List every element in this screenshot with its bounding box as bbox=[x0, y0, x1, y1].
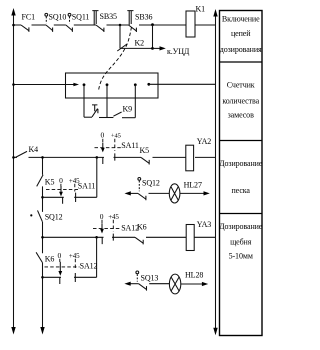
svg-text:SA11: SA11 bbox=[121, 141, 139, 150]
riser wire SA11 bbox=[96, 157, 98, 197]
wire counter bottom middle bbox=[99, 117, 113, 119]
contact K4 bbox=[16, 145, 39, 158]
wire counter bottom left bbox=[84, 116, 92, 118]
svg-text:K5: K5 bbox=[45, 177, 55, 186]
svg-text:SQ12: SQ12 bbox=[45, 212, 63, 221]
wire K2 row bbox=[120, 47, 153, 49]
lamp HL27 bbox=[169, 181, 202, 203]
svg-text:K4: K4 bbox=[29, 145, 39, 154]
svg-text:к.УЦД: к.УЦД bbox=[167, 47, 190, 56]
contact K6 (row5) bbox=[135, 222, 147, 244]
svg-text:YA2: YA2 bbox=[197, 137, 211, 146]
node lower SA11 rail junction bbox=[41, 196, 44, 199]
limit switch contact SQ11 bbox=[66, 13, 90, 32]
row6 gravel dosing indication (y=283.7) bbox=[124, 282, 138, 286]
svg-text:HL28: HL28 bbox=[185, 271, 203, 280]
svg-text:Дозирование: Дозирование bbox=[219, 222, 263, 231]
svg-text:Счетчик: Счетчик bbox=[227, 80, 255, 89]
contact K5 (in middle rail) bbox=[37, 175, 55, 187]
contact FC1 bbox=[21, 13, 35, 32]
svg-text:щебня: щебня bbox=[230, 237, 252, 246]
svg-text:SQ12: SQ12 bbox=[142, 178, 160, 187]
row3 wire segments (y=157.4) bbox=[14, 156, 216, 158]
svg-text:SB35: SB35 bbox=[100, 12, 117, 21]
selector switch SA12 lower section bbox=[45, 251, 98, 276]
cell 2 text bbox=[222, 80, 259, 119]
row2 counter feed wire (y=84.5) bbox=[14, 84, 76, 86]
svg-text:песка: песка bbox=[231, 186, 250, 195]
SA12 lower position ticks bbox=[60, 273, 76, 284]
contact K9 bbox=[113, 104, 132, 116]
lamp HL28 bbox=[169, 271, 203, 294]
riser wire SA12 bbox=[96, 237, 98, 277]
wire lower SA12 row (y=277.3) bbox=[43, 276, 97, 278]
svg-text:количества: количества bbox=[222, 96, 259, 105]
svg-text:Дозирование: Дозирование bbox=[219, 159, 263, 168]
svg-text:дозирования: дозирования bbox=[220, 45, 262, 54]
svg-text:цепей: цепей bbox=[231, 29, 251, 38]
node counter output bbox=[147, 83, 150, 86]
right supply rail L2 bbox=[213, 9, 217, 335]
left supply rail L1 bbox=[11, 8, 15, 335]
svg-text:K9: K9 bbox=[123, 104, 133, 113]
node C (K2 row to output arrow) bbox=[151, 47, 154, 50]
limit switch contact SQ10 bbox=[45, 13, 67, 32]
svg-text:K1: K1 bbox=[196, 4, 206, 13]
SA11 lower position ticks bbox=[63, 193, 76, 204]
counter pin C bbox=[134, 83, 137, 117]
svg-text:K2: K2 bbox=[135, 39, 145, 48]
svg-text:0: 0 bbox=[57, 251, 61, 260]
node row2-left rail junction bbox=[12, 83, 15, 86]
wire counter output to right rail bbox=[149, 83, 216, 85]
svg-text:+45: +45 bbox=[108, 213, 119, 221]
cell 3 text bbox=[219, 159, 263, 195]
solenoid coil YA3 bbox=[186, 220, 211, 251]
mechanical link (dashed) from SB36 through K2 to counter bbox=[99, 27, 132, 90]
counter reset push contact bbox=[92, 105, 98, 117]
limit switch contact SQ12 bbox=[138, 178, 160, 201]
wire to external circuit k.UCD bbox=[153, 46, 190, 56]
svg-text:0: 0 bbox=[100, 131, 104, 140]
solenoid coil YA2 bbox=[186, 137, 211, 171]
svg-text:SA11: SA11 bbox=[78, 181, 96, 190]
svg-text:K5: K5 bbox=[140, 146, 150, 155]
node B (junction above K2 output) bbox=[151, 23, 154, 26]
node row5 riser junction bbox=[95, 236, 98, 239]
svg-text:+45: +45 bbox=[69, 252, 80, 260]
svg-text:+45: +45 bbox=[111, 133, 121, 140]
node row3-left rail junction bbox=[12, 156, 15, 159]
row5 wire segments (y=237.3) bbox=[43, 236, 216, 238]
svg-text:K6: K6 bbox=[45, 254, 55, 263]
wire to lamp bbox=[149, 192, 170, 194]
node A (branch to K2 self-hold) bbox=[119, 24, 122, 27]
contact K6 (in middle rail) bbox=[36, 252, 54, 263]
node row5-middle rail junction bbox=[41, 236, 44, 239]
selector switch SA11 upper section bbox=[95, 131, 139, 164]
selector switch SA12 upper section bbox=[93, 212, 139, 244]
relay coil K1 bbox=[186, 4, 205, 37]
row4 sand dosing indication (y=193.4) bbox=[125, 191, 139, 195]
svg-text:YA3: YA3 bbox=[197, 220, 211, 229]
contact K2 (self-holding) bbox=[117, 39, 144, 52]
counter pin A bbox=[83, 83, 86, 117]
node lower SA12 rail junction bbox=[41, 276, 44, 279]
wire to lamp bbox=[149, 283, 169, 285]
svg-text:SQ13: SQ13 bbox=[141, 273, 159, 282]
svg-text:Включение: Включение bbox=[222, 15, 260, 24]
wire from node B down bbox=[152, 25, 154, 48]
node row3 riser junction bbox=[96, 156, 99, 159]
svg-text:5-10мм: 5-10мм bbox=[229, 251, 253, 260]
svg-text:SQ10: SQ10 bbox=[49, 13, 67, 22]
svg-text:FC1: FC1 bbox=[22, 13, 36, 22]
svg-text:SB36: SB36 bbox=[135, 13, 152, 22]
wire counter bottom right bbox=[122, 117, 135, 119]
svg-text:замесов: замесов bbox=[228, 110, 254, 119]
node row1-left rail junction bbox=[12, 24, 15, 27]
svg-text:0: 0 bbox=[100, 212, 104, 221]
push button SB36 bbox=[127, 11, 152, 32]
svg-text:K6: K6 bbox=[137, 222, 147, 231]
selector switch SA11 lower section bbox=[46, 176, 95, 197]
limit switch contact SQ13 bbox=[136, 271, 159, 291]
node row3-middle rail junction bbox=[41, 156, 44, 159]
cell 4 text bbox=[219, 222, 263, 260]
contact K5 (row3) bbox=[140, 146, 150, 165]
svg-text:HL27: HL27 bbox=[184, 181, 202, 190]
wire entry arrow into counter bbox=[73, 83, 79, 87]
counter pin B bbox=[106, 83, 109, 117]
middle bus rail (from K4 row down) bbox=[40, 157, 44, 334]
contact SQ12 (in middle rail) bbox=[30, 210, 62, 221]
wire lamp to arrow bbox=[181, 282, 208, 286]
wire branch down to K2 row bbox=[119, 25, 121, 48]
row1 wire segments (y=25) bbox=[14, 24, 216, 26]
wire lamp to arrow bbox=[180, 191, 210, 195]
wire lower SA11 row (y=197.3) bbox=[43, 196, 97, 198]
svg-text:SA12: SA12 bbox=[80, 261, 98, 270]
push button SB35 bbox=[92, 11, 117, 32]
svg-text:SQ11: SQ11 bbox=[72, 13, 90, 22]
function description column bbox=[220, 11, 263, 336]
svg-text:0: 0 bbox=[59, 176, 63, 185]
counter unit box bbox=[66, 73, 159, 98]
cell 1 text bbox=[220, 15, 262, 55]
